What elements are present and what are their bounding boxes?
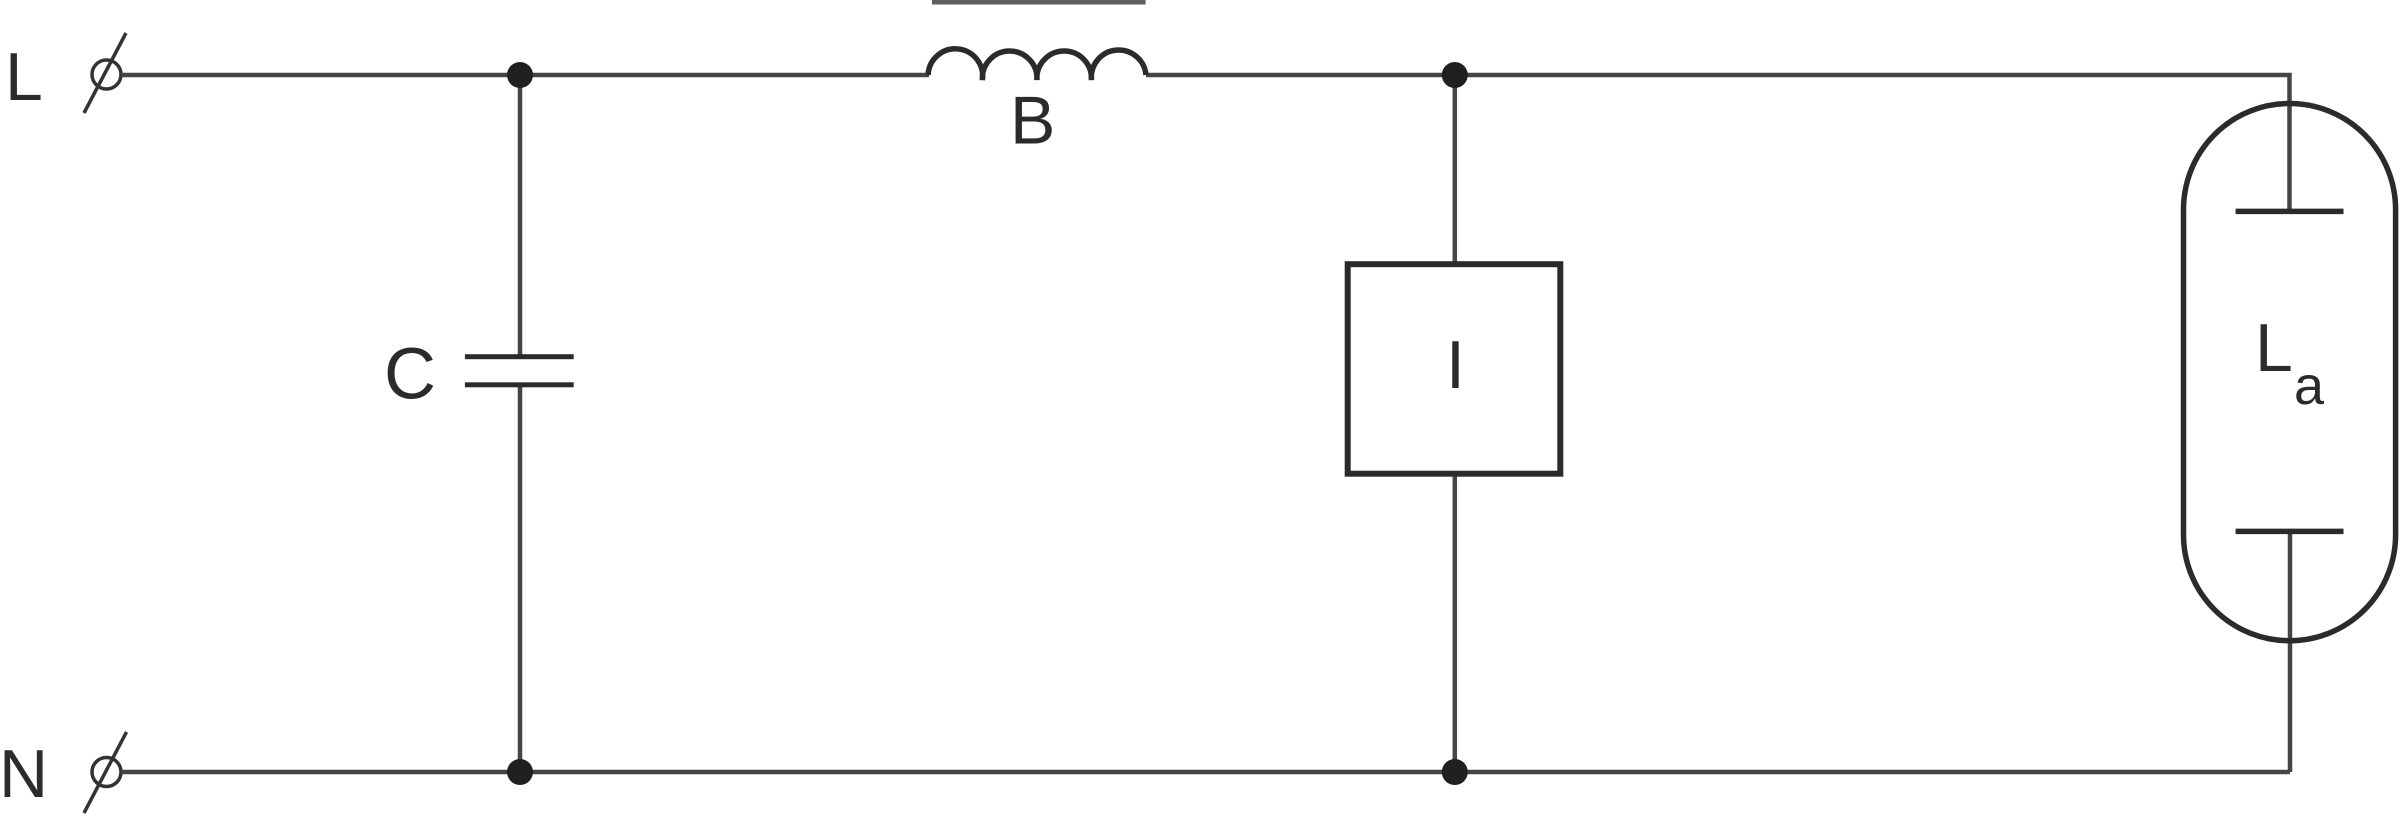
junction bottom-left (507, 759, 533, 785)
lamp bottom electrode (2236, 529, 2344, 535)
wire lamp bottom leg (2288, 531, 2293, 772)
wire top R segment (inductor to lamp corner) (1146, 75, 2290, 211)
wire bottom segment (terminal N to lamp) (121, 770, 2290, 775)
svg-text:C: C (384, 335, 436, 415)
svg-text:I: I (1446, 327, 1465, 403)
wire ignitor top leg (1453, 75, 1458, 264)
ignitor box I (1348, 264, 1561, 474)
wire capacitor top leg (518, 75, 523, 356)
wire ignitor bottom leg (1453, 474, 1458, 772)
lamp top electrode (2236, 209, 2344, 215)
terminal L (circle with slash) (84, 33, 126, 113)
terminal N (circle with slash) (84, 732, 127, 813)
svg-text:a: a (2294, 356, 2325, 416)
wire top L segment (terminal to inductor) (121, 73, 929, 78)
junction top-left (507, 62, 533, 88)
inductor B coil (928, 49, 1146, 80)
inductor core bar (gray, cropped at top) (932, 0, 1146, 5)
capacitor C top plate (465, 354, 574, 359)
svg-text:L: L (2255, 310, 2293, 386)
capacitor C bottom plate (465, 382, 574, 387)
wire capacitor bottom leg (518, 384, 523, 772)
svg-text:N: N (0, 736, 48, 812)
junction top-right (1442, 62, 1468, 88)
lamp La envelope (stadium) (2184, 104, 2396, 641)
svg-text:L: L (5, 39, 43, 115)
junction bottom-right (1442, 759, 1468, 785)
svg-text:B: B (1010, 83, 1055, 159)
